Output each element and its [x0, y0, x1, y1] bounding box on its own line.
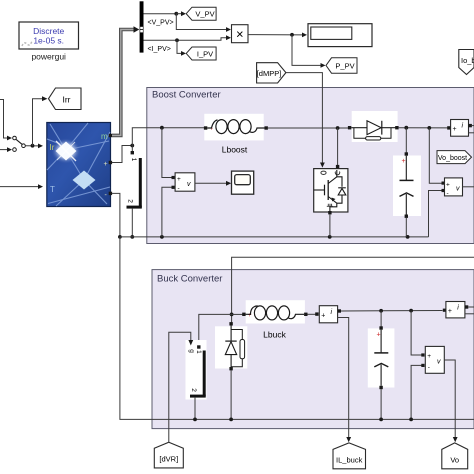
powergui block [19, 22, 79, 62]
current measurement Io_boost [447, 120, 474, 137]
inductor Lbuck [242, 300, 307, 339]
wire: product to display [248, 33, 307, 38]
wire: Vo signal down to Vo tag [444, 360, 457, 442]
svg-text:+: + [321, 312, 325, 319]
boost bottom rail [120, 235, 429, 239]
capacitor C2 [368, 311, 395, 420]
svg-text:V_PV: V_PV [195, 10, 214, 19]
from tag dMPP [257, 63, 286, 83]
wire: i signal down to IL_buck tag [338, 318, 352, 443]
svg-text:2: 2 [190, 388, 197, 392]
wire: T input to PV [0, 184, 43, 189]
wire: dMPP to IGBT gate [286, 73, 325, 168]
svg-text:Buck Converter: Buck Converter [157, 274, 222, 285]
wire: branch to P_PV tag [292, 35, 326, 68]
voltage measurement V1 block [175, 173, 195, 192]
wire: branch up to Irr tag [33, 96, 48, 145]
current measurement IL_buck block [319, 306, 341, 323]
wire: V1 to scope [195, 181, 231, 186]
svg-text:×: × [236, 27, 244, 42]
goto tag Vo [442, 443, 468, 469]
wire: bottom rail corner to Vboost - [429, 189, 445, 237]
svg-text:1: 1 [195, 350, 202, 354]
goto tag IL_buck [333, 443, 366, 469]
manual switch [13, 136, 26, 151]
goto tag Irr [49, 88, 82, 110]
svg-text:powergui: powergui [31, 52, 66, 62]
wire: rail branch to V1 - [162, 186, 175, 237]
wire: IGBT emitter to bottom rail [329, 214, 331, 237]
voltage measurement Vo block [425, 346, 444, 373]
svg-text:+: + [446, 181, 450, 188]
wire: bus selector out I_PV [144, 35, 232, 53]
PV array block [47, 123, 112, 207]
diode D1 [348, 111, 399, 142]
svg-text:m: m [101, 132, 108, 141]
svg-text:Io_b: Io_b [461, 56, 474, 65]
voltage measurement Vo_boost block [445, 178, 474, 197]
svg-text:[dVR]: [dVR] [159, 455, 178, 464]
bus wire m to Bus Selector [112, 26, 139, 135]
wire: Lbuck to I_L measurement [308, 312, 319, 315]
wire: PV- down to ground rail [112, 193, 134, 238]
bus selector [140, 1, 144, 52]
svg-text:+: + [448, 308, 452, 315]
wire: node A up to boost top rail [132, 126, 204, 146]
svg-text:g: g [188, 349, 195, 353]
wire: buck rail to Lbuck [232, 313, 243, 315]
svg-text:IL_buck: IL_buck [336, 456, 363, 465]
wire: Vbuck - to bottom rail [411, 364, 424, 420]
goto tag Io_boost (clipped) [459, 50, 474, 75]
svg-text:1: 1 [130, 158, 137, 162]
svg-text:T: T [50, 185, 55, 194]
svg-text:Ir: Ir [50, 143, 55, 152]
wire: boost out to buck in (link) [230, 257, 474, 322]
svg-text:Irr: Irr [62, 94, 70, 104]
subsystem box Boost Converter [147, 88, 474, 244]
svg-text:P_PV: P_PV [335, 62, 354, 71]
svg-text:<V_PV>: <V_PV> [148, 20, 174, 27]
wire: left input to manual switch lower [0, 147, 12, 152]
goto tag V_PV [186, 7, 216, 20]
wire: IGBT collector to top rail [337, 128, 339, 166]
svg-text:I_PV: I_PV [197, 49, 213, 58]
wire: V_PV branch to product [176, 14, 231, 32]
svg-text:Lbuck: Lbuck [263, 330, 286, 340]
wire: IL meas out along buck rail [341, 309, 443, 313]
svg-text:1e-05 s.: 1e-05 s. [33, 36, 64, 46]
product block [232, 25, 249, 43]
svg-text:v: v [456, 186, 460, 193]
wire: PV+ to node A [112, 144, 134, 163]
svg-text:+: + [104, 161, 108, 168]
svg-text:v: v [187, 181, 191, 188]
inductor Lboost [204, 114, 268, 155]
subsystem box Buck Converter [152, 270, 474, 429]
wire: switch output to PV Ir input [25, 144, 43, 149]
goto tag Vo_boost [437, 151, 472, 164]
from tag dVR [154, 442, 183, 468]
svg-text:-: - [447, 190, 449, 197]
switch S2 (buck) [186, 338, 207, 419]
goto tag I_PV [186, 47, 216, 60]
svg-text:+: + [453, 126, 457, 133]
diode D2 [215, 322, 247, 419]
svg-text:<I_PV>: <I_PV> [148, 46, 171, 53]
wire: Lboost to diode [268, 126, 349, 130]
svg-text:[dMPP]: [dMPP] [257, 69, 282, 78]
wire: rail branch to V1 + [162, 128, 175, 179]
svg-text:Discrete: Discrete [33, 26, 64, 36]
current measurement Io_buck [443, 302, 474, 318]
svg-text:Vo: Vo [450, 456, 459, 465]
svg-text:Vo_boost: Vo_boost [438, 155, 467, 162]
wire: dVR up to switch gate [169, 332, 191, 442]
capacitor C1 [393, 128, 421, 237]
wire: bus selector out V_PV [144, 11, 187, 26]
goto tag P_PV [326, 58, 357, 73]
wire: buck rail to Vbuck + [411, 311, 424, 357]
wire: left input to manual switch upper [0, 100, 12, 141]
wire: top rail to Vboost + [429, 128, 444, 185]
wire: I_PV branch to tag [177, 40, 186, 56]
svg-text:+: + [376, 332, 380, 339]
svg-text:2: 2 [127, 199, 134, 203]
switch S1 near PV [125, 146, 143, 237]
svg-text:-: - [428, 364, 430, 371]
svg-text:Lboost: Lboost [222, 145, 248, 155]
wire: buck rail to switch S2 port1 [199, 314, 232, 343]
svg-text:-: - [178, 185, 180, 192]
buck bottom rail [120, 237, 474, 421]
svg-text:+: + [427, 353, 431, 360]
svg-text:Boost Converter: Boost Converter [152, 90, 221, 101]
svg-text:+: + [402, 158, 406, 165]
IGBT block [314, 165, 348, 215]
display block [308, 24, 372, 47]
svg-text:+: + [177, 176, 181, 183]
wire: diode out along top rail [399, 126, 448, 130]
scope block [232, 171, 254, 194]
svg-text:v: v [437, 359, 441, 366]
